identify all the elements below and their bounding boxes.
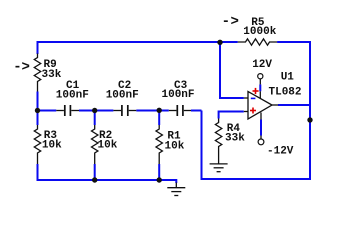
svg-text:33k: 33k bbox=[225, 133, 245, 145]
svg-text:->: -> bbox=[13, 60, 30, 76]
op-amp U1 output pin stub bbox=[272, 104, 278, 106]
terminal -12V bbox=[258, 139, 264, 145]
junction dot output rail bbox=[307, 117, 312, 122]
resistor R2 bbox=[92, 125, 98, 164]
wire op-amp output to right rail bbox=[278, 104, 310, 106]
wire left rail between R9 and R3 bbox=[37, 92, 39, 126]
resistor R3 bbox=[34, 125, 40, 164]
svg-text:100nF: 100nF bbox=[162, 89, 195, 101]
resistor R5 bbox=[238, 39, 277, 45]
wire ground stub bottom-left bbox=[175, 179, 177, 183]
wire C2 to C3 bbox=[136, 110, 169, 112]
wire R1 top bbox=[158, 111, 160, 126]
node 2 junction dot (C1/C2/R2) bbox=[92, 108, 97, 113]
op-amp U1 non-inverting pin stub bbox=[244, 111, 248, 113]
junction dot R1 bottom bbox=[157, 177, 162, 182]
wire positive supply bbox=[259, 84, 261, 91]
resistor R1 bbox=[156, 125, 162, 164]
capacitor C3 bbox=[169, 105, 191, 116]
op-amp U1 negative supply pin bbox=[260, 113, 262, 120]
wire node1 to C1 bbox=[38, 110, 57, 112]
wire R2 bottom bbox=[94, 164, 96, 181]
svg-text:1000k: 1000k bbox=[243, 26, 276, 38]
svg-text:TL082: TL082 bbox=[269, 87, 302, 99]
svg-text:12V: 12V bbox=[252, 59, 272, 71]
op-amp U1 positive supply plus marker bbox=[253, 88, 259, 94]
op-amp U1 positive supply pin bbox=[259, 79, 261, 85]
wire node A to R5 bbox=[220, 41, 238, 43]
svg-text:->: -> bbox=[222, 14, 239, 30]
node 1 junction dot (R9/R3/C1) bbox=[35, 108, 40, 113]
wire C1 to C2 bbox=[79, 110, 113, 112]
wire output loop: drop, bottom-right rail, right rail to R5 bbox=[202, 42, 311, 179]
wire top-left rail (left rail top corner to node A) bbox=[38, 42, 221, 54]
capacitor C1 bbox=[56, 105, 79, 116]
node 3 junction dot (C2/C3/R1) bbox=[157, 108, 162, 113]
op-amp U1 non-inverting input plus marker bbox=[250, 108, 256, 114]
capacitor C2 bbox=[113, 105, 136, 116]
wire R3 bottom to bottom-left rail bbox=[38, 164, 177, 180]
svg-text:-12V: -12V bbox=[267, 145, 294, 157]
wire R2 top bbox=[94, 111, 96, 126]
op-amp U1 triangle bbox=[248, 92, 272, 120]
svg-text:U1: U1 bbox=[281, 71, 295, 83]
resistor R4 bbox=[215, 119, 221, 158]
resistor R9 bbox=[34, 54, 40, 92]
op-amp U1 inverting pin stub bbox=[244, 97, 248, 99]
wire non-inverting input to R4 bbox=[219, 112, 244, 119]
svg-text:100nF: 100nF bbox=[56, 90, 89, 102]
wire negative supply bbox=[260, 120, 262, 136]
ground (bottom-left rail) bbox=[167, 183, 185, 196]
svg-text:33k: 33k bbox=[42, 69, 62, 81]
svg-text:10k: 10k bbox=[42, 140, 62, 152]
svg-text:10k: 10k bbox=[165, 140, 185, 152]
terminal +12V bbox=[258, 74, 263, 79]
ground (R4) bbox=[210, 158, 228, 172]
svg-text:100nF: 100nF bbox=[106, 90, 139, 102]
wire R1 bottom bbox=[158, 164, 160, 181]
node A junction dot (R5/R9/inverting input) bbox=[217, 40, 222, 45]
svg-text:10k: 10k bbox=[98, 140, 118, 152]
wire C3 to output drop bbox=[191, 110, 202, 112]
junction dot R2 bottom bbox=[92, 177, 97, 182]
op-amp U1 inverting input minus marker bbox=[251, 97, 256, 99]
wire node A to inverting input bbox=[220, 42, 244, 98]
